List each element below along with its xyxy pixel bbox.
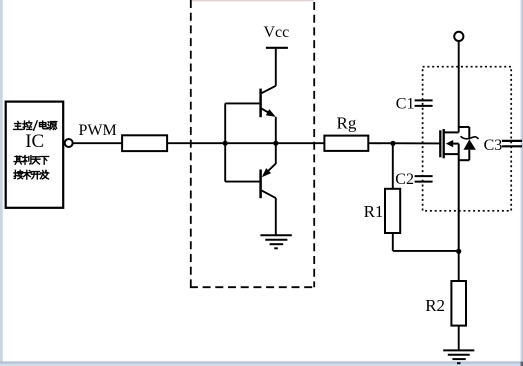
svg-text:Vcc: Vcc — [264, 24, 290, 41]
svg-text:C1: C1 — [396, 96, 415, 113]
svg-text:C2: C2 — [395, 171, 414, 188]
svg-text:R1: R1 — [364, 202, 384, 221]
svg-text:IC: IC — [25, 131, 44, 152]
svg-text:C3: C3 — [484, 137, 503, 154]
svg-text:R2: R2 — [425, 296, 445, 315]
svg-text:PWM: PWM — [79, 122, 117, 139]
svg-text:Rg: Rg — [337, 113, 357, 132]
